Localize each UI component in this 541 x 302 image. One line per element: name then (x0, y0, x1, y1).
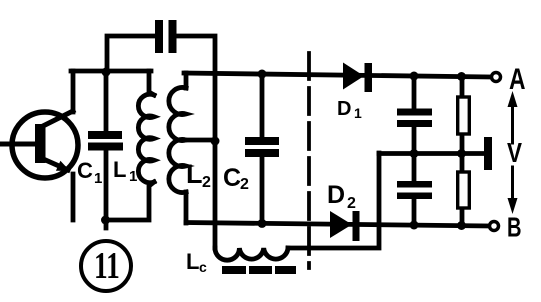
svg-text:L: L (186, 159, 203, 189)
svg-text:11: 11 (94, 245, 120, 287)
svg-text:B: B (507, 212, 522, 243)
svg-text:L: L (186, 249, 199, 274)
svg-text:D: D (337, 98, 351, 120)
svg-text:C: C (223, 164, 241, 192)
svg-text:A: A (509, 63, 526, 96)
svg-text:1: 1 (94, 170, 102, 187)
svg-text:V: V (507, 137, 522, 168)
svg-text:C: C (77, 158, 93, 183)
svg-text:D: D (327, 181, 345, 209)
svg-text:1: 1 (354, 105, 362, 121)
svg-text:L: L (113, 157, 126, 182)
svg-text:2: 2 (347, 195, 356, 212)
svg-text:2: 2 (202, 174, 211, 191)
svg-text:c: c (199, 259, 207, 275)
svg-text:2: 2 (240, 176, 249, 193)
svg-text:1: 1 (129, 168, 137, 185)
